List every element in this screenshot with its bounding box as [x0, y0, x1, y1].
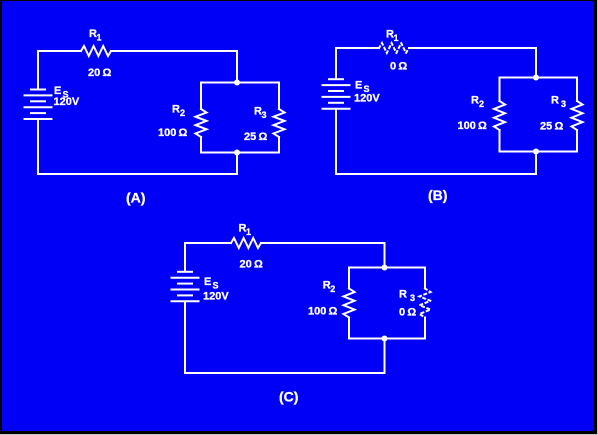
- svg-text:(A): (A): [126, 190, 145, 206]
- svg-text:25 Ω: 25 Ω: [540, 121, 563, 133]
- svg-text:R: R: [172, 104, 180, 116]
- svg-text:100 Ω: 100 Ω: [458, 120, 488, 132]
- svg-text:2: 2: [330, 284, 335, 294]
- svg-text:R: R: [551, 95, 559, 107]
- svg-text:R: R: [471, 95, 479, 107]
- svg-text:E: E: [355, 80, 362, 92]
- svg-text:3: 3: [410, 293, 415, 303]
- svg-text:120V: 120V: [354, 93, 380, 105]
- svg-text:100 Ω: 100 Ω: [158, 127, 188, 139]
- svg-text:S: S: [213, 281, 219, 291]
- svg-text:120V: 120V: [203, 291, 229, 303]
- svg-text:3: 3: [561, 99, 566, 109]
- svg-text:20 Ω: 20 Ω: [240, 259, 263, 271]
- svg-text:100 Ω: 100 Ω: [308, 306, 338, 318]
- svg-text:(B): (B): [428, 187, 447, 203]
- svg-text:2: 2: [180, 108, 185, 118]
- svg-text:25 Ω: 25 Ω: [244, 131, 267, 143]
- svg-text:0 Ω: 0 Ω: [390, 61, 407, 73]
- svg-text:3: 3: [262, 110, 267, 120]
- svg-text:1: 1: [97, 33, 102, 43]
- svg-text:1: 1: [246, 227, 251, 237]
- svg-text:2: 2: [479, 99, 484, 109]
- svg-text:(C): (C): [279, 389, 298, 405]
- svg-text:20 Ω: 20 Ω: [88, 67, 111, 79]
- svg-text:120V: 120V: [54, 96, 80, 108]
- svg-text:0 Ω: 0 Ω: [399, 307, 416, 319]
- svg-text:E: E: [204, 276, 211, 288]
- svg-text:R: R: [399, 289, 407, 301]
- svg-text:1: 1: [394, 33, 399, 43]
